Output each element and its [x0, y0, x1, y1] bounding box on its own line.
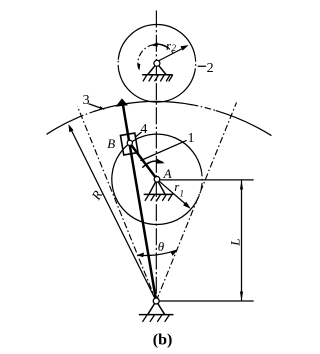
label 4 with leader — [136, 132, 141, 136]
rotation arrow arc of gear 2 (top, pointing left) — [158, 44, 169, 48]
weld wedge joining lever to sector rim — [116, 98, 128, 106]
ground hatching under pivot A — [145, 195, 172, 201]
gear 2 circle dash-dot segment left — [117, 59, 120, 71]
gear 2 circle (solid bottom part) — [119, 71, 195, 102]
ground hatching under gear 2 pivot — [143, 75, 172, 81]
crank-pin path circle (dash-dot) around gear 2 axis — [138, 44, 173, 69]
extension line at A level — [160, 179, 253, 181]
svg-text:1: 1 — [180, 189, 185, 199]
extreme position line right (dash-dot) — [156, 103, 236, 302]
gear sector 3 arc solid middle — [95, 101, 192, 111]
svg-text:1: 1 — [188, 131, 195, 146]
extreme position line left (dash-dot) — [78, 107, 157, 302]
svg-text:(b): (b) — [153, 331, 173, 348]
svg-text:2: 2 — [207, 61, 214, 76]
label 3 with leader — [89, 104, 103, 109]
gear sector 3 arc solid right — [216, 111, 271, 136]
crank link A-B (bold) — [128, 141, 157, 179]
rotation arrow of crank 1 — [143, 161, 162, 167]
svg-text:L: L — [228, 239, 243, 247]
ground hatching under pivot O — [143, 315, 170, 322]
slider block 4 — [120, 133, 138, 155]
crank circle 1 dash-dot segment right — [198, 170, 202, 198]
gear 2 circle (solid top part) — [118, 24, 195, 59]
crank circle 1 (solid part) — [112, 134, 201, 224]
svg-text:B: B — [107, 136, 115, 151]
rotation arrow of gear 2 (down arrowhead on dash-dot arc) — [137, 64, 140, 71]
radius arrow r1 — [157, 179, 188, 206]
svg-text:R: R — [88, 188, 105, 203]
pivot O (pin + support) — [148, 301, 156, 314]
radius arrow r2 — [157, 47, 185, 62]
gear sector 3 arc dash-dot right — [192, 105, 216, 111]
dimension line L — [241, 181, 243, 300]
svg-text:4: 4 — [140, 122, 147, 137]
pin B — [127, 140, 132, 145]
pivot A (pin + support) — [149, 179, 157, 194]
gear sector 3 arc solid left — [47, 118, 77, 134]
wire vertical frame centerline — [155, 11, 157, 302]
swing angle arc theta — [138, 250, 177, 255]
svg-text:3: 3 — [83, 93, 90, 108]
svg-text:θ: θ — [158, 239, 165, 254]
gear sector 3 arc dash-dot left — [77, 111, 94, 118]
leader tip of 3 — [100, 106, 105, 110]
pivot of gear 2 (pin + support) — [148, 63, 157, 74]
svg-text:A: A — [163, 166, 172, 181]
extension line at O level — [159, 300, 253, 302]
svg-text:2: 2 — [172, 43, 177, 53]
label 2 with leader — [198, 65, 205, 67]
label 1 with leader — [141, 141, 186, 161]
dimension line R from O to sector arc — [70, 127, 157, 302]
gear 2 circle dash-dot segment right — [194, 55, 197, 71]
rocker lever 3 (bold) from O through slider — [122, 101, 156, 302]
